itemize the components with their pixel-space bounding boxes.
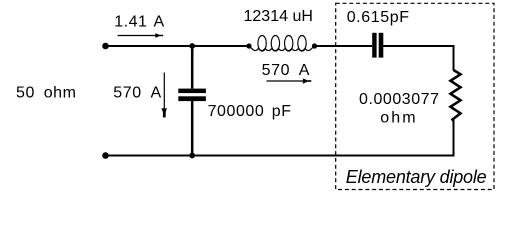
- wire right branch bottom lead: [453, 120, 455, 157]
- wire bottom horizontal: [105, 155, 455, 157]
- svg-text:0.615pF: 0.615pF: [347, 9, 410, 26]
- junction node top (shunt cap): [189, 43, 195, 49]
- svg-text:1.41 A: 1.41 A: [114, 13, 164, 30]
- capacitor C shunt 700000 pF plates: [178, 89, 206, 102]
- junction node bottom (shunt cap): [189, 153, 195, 159]
- terminal dot bottom left: [102, 152, 109, 159]
- resistor R 0.0003077 ohm zigzag: [451, 70, 461, 121]
- wire shunt branch top lead: [191, 46, 194, 89]
- arrow 570 A right: [267, 78, 312, 83]
- terminal dot top left: [102, 43, 109, 50]
- svg-text:ohm: ohm: [380, 109, 417, 126]
- svg-text:Elementary dipole: Elementary dipole: [346, 167, 487, 187]
- svg-text:50 ohm: 50 ohm: [16, 85, 77, 102]
- wire shunt branch bottom lead: [191, 101, 194, 156]
- wire top horizontal left segment: [105, 45, 249, 47]
- capacitor C series 0.615pF plates: [372, 33, 383, 58]
- svg-text:570 A: 570 A: [262, 62, 310, 79]
- inductor L 12314 uH: [246, 36, 317, 52]
- svg-text:0.0003077: 0.0003077: [359, 91, 440, 108]
- svg-text:12314 uH: 12314 uH: [244, 8, 313, 25]
- wire right branch top lead: [453, 45, 455, 71]
- svg-text:700000 pF: 700000 pF: [208, 103, 292, 120]
- arrow 1.41 A current: [118, 33, 164, 38]
- arrow 570 A down: [161, 73, 167, 118]
- wire top horizontal right segment (series cap to corner): [383, 45, 454, 47]
- svg-text:570 A: 570 A: [113, 84, 161, 101]
- dashed box (elementary dipole boundary): [336, 3, 494, 189]
- wire top horizontal middle segment (inductor to series cap): [314, 45, 372, 47]
